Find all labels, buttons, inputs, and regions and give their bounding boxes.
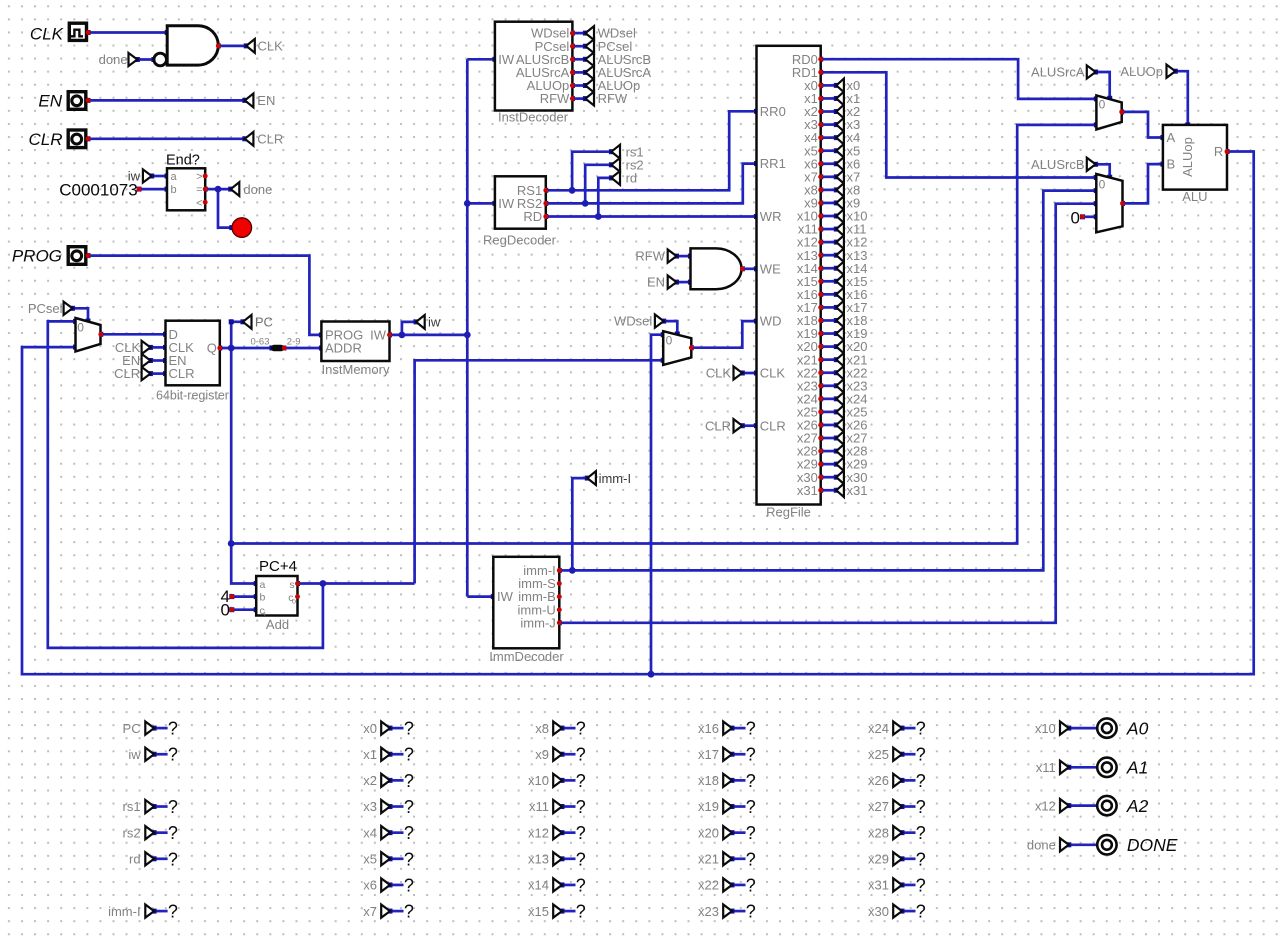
svg-text:IW: IW: [498, 52, 515, 67]
svg-text:A1: A1: [1126, 758, 1148, 778]
svg-text:CLK: CLK: [760, 366, 786, 381]
svg-text:x25: x25: [868, 747, 889, 762]
svg-text:rs2: rs2: [123, 825, 141, 840]
svg-text:WDsel: WDsel: [614, 314, 652, 329]
svg-text:?: ?: [404, 875, 414, 895]
svg-text:x16: x16: [698, 721, 719, 736]
svg-text:?: ?: [576, 771, 586, 791]
svg-text:RR1: RR1: [760, 156, 786, 171]
svg-text:WD: WD: [760, 314, 782, 329]
svg-text:Q: Q: [207, 340, 217, 355]
svg-text:PC: PC: [255, 314, 273, 329]
svg-text:a: a: [260, 579, 266, 591]
svg-text:x0: x0: [363, 721, 377, 736]
svg-text:?: ?: [916, 745, 926, 765]
svg-text:x1: x1: [363, 747, 377, 762]
svg-text:done: done: [99, 52, 128, 67]
svg-text:?: ?: [746, 745, 756, 765]
svg-text:x2: x2: [363, 773, 377, 788]
svg-text:?: ?: [168, 719, 178, 739]
svg-text:x23: x23: [698, 904, 719, 919]
svg-text:x31: x31: [868, 878, 889, 893]
svg-text:x11: x11: [1036, 760, 1056, 775]
svg-text:?: ?: [746, 823, 756, 843]
svg-text:?: ?: [916, 719, 926, 739]
svg-text:RFW: RFW: [540, 91, 570, 106]
svg-text:A: A: [1167, 130, 1176, 145]
svg-text:x29: x29: [868, 852, 889, 867]
svg-text:rs1: rs1: [123, 799, 141, 814]
svg-text:x8: x8: [535, 721, 549, 736]
svg-text:x12: x12: [528, 825, 549, 840]
svg-text:?: ?: [916, 771, 926, 791]
svg-text:?: ?: [168, 823, 178, 843]
svg-text:CLR: CLR: [257, 132, 283, 147]
svg-text:imm-I: imm-I: [599, 471, 632, 486]
svg-text:0: 0: [221, 601, 230, 620]
svg-text:ALUSrcB: ALUSrcB: [1031, 157, 1084, 172]
svg-text:?: ?: [404, 745, 414, 765]
svg-text:?: ?: [746, 771, 756, 791]
svg-text:?: ?: [576, 849, 586, 869]
svg-text:b: b: [171, 184, 177, 196]
svg-text:?: ?: [746, 875, 756, 895]
svg-text:RD: RD: [523, 209, 542, 224]
svg-text:?: ?: [168, 745, 178, 765]
svg-text:x7: x7: [363, 904, 377, 919]
svg-text:0: 0: [666, 333, 673, 347]
svg-text:C0001073: C0001073: [59, 181, 137, 200]
svg-text:x22: x22: [698, 878, 719, 893]
svg-text:x9: x9: [535, 747, 549, 762]
svg-text:?: ?: [168, 849, 178, 869]
svg-text:RegDecoder: RegDecoder: [483, 232, 557, 247]
svg-text:End?: End?: [166, 153, 200, 169]
svg-text:x31: x31: [847, 483, 868, 498]
svg-text:rd: rd: [129, 852, 141, 867]
svg-text:0: 0: [1071, 208, 1080, 227]
svg-text:x10: x10: [1035, 721, 1056, 736]
svg-text:x21: x21: [698, 852, 719, 867]
svg-text:B: B: [1167, 157, 1176, 172]
svg-text:imm-I: imm-I: [108, 904, 141, 919]
svg-text:o: o: [292, 596, 296, 605]
svg-text:RFW: RFW: [635, 249, 665, 264]
svg-text:CLR: CLR: [760, 418, 786, 433]
svg-text:?: ?: [404, 771, 414, 791]
svg-text:2-9: 2-9: [287, 336, 301, 347]
svg-text:?: ?: [576, 719, 586, 739]
svg-text:?: ?: [404, 823, 414, 843]
svg-text:CLR: CLR: [705, 418, 731, 433]
svg-text:x20: x20: [698, 825, 719, 840]
svg-text:DONE: DONE: [1127, 835, 1178, 855]
svg-text:WE: WE: [760, 261, 781, 276]
svg-text:PC: PC: [123, 721, 141, 736]
svg-text:ALUop: ALUop: [1180, 137, 1195, 177]
svg-text:?: ?: [916, 849, 926, 869]
svg-text:x14: x14: [528, 878, 549, 893]
svg-text:?: ?: [576, 875, 586, 895]
svg-text:?: ?: [746, 797, 756, 817]
svg-text:CLR: CLR: [28, 130, 62, 149]
svg-text:x11: x11: [529, 799, 549, 814]
svg-text:x28: x28: [868, 825, 889, 840]
svg-text:a: a: [171, 171, 178, 183]
svg-text:imm-J: imm-J: [520, 615, 555, 630]
svg-text:<: <: [196, 197, 202, 209]
svg-text:?: ?: [168, 902, 178, 922]
svg-text:R: R: [1214, 144, 1223, 159]
svg-text:iw: iw: [128, 747, 141, 762]
svg-text:?: ?: [746, 902, 756, 922]
svg-text:0: 0: [1099, 97, 1106, 111]
svg-text:?: ?: [916, 797, 926, 817]
svg-text:?: ?: [404, 719, 414, 739]
svg-text:?: ?: [576, 823, 586, 843]
svg-text:0-63: 0-63: [250, 336, 269, 347]
svg-text:CLR: CLR: [114, 366, 140, 381]
svg-text:?: ?: [916, 823, 926, 843]
svg-text:?: ?: [404, 849, 414, 869]
svg-text:EN: EN: [647, 275, 665, 290]
svg-text:EN: EN: [257, 93, 275, 108]
svg-text:IW: IW: [370, 327, 387, 342]
svg-text:?: ?: [576, 797, 586, 817]
svg-text:x19: x19: [698, 799, 719, 814]
svg-text:64bit-register: 64bit-register: [156, 389, 229, 403]
svg-text:x3: x3: [363, 799, 377, 814]
svg-text:x27: x27: [868, 799, 889, 814]
svg-text:InstDecoder: InstDecoder: [498, 109, 569, 124]
svg-text:?: ?: [746, 849, 756, 869]
svg-text:CLR: CLR: [169, 366, 195, 381]
svg-text:done: done: [243, 182, 272, 197]
svg-text:x6: x6: [363, 878, 377, 893]
svg-text:x4: x4: [363, 825, 377, 840]
svg-text:ALU: ALU: [1182, 189, 1207, 204]
svg-text:CLK: CLK: [30, 25, 64, 44]
svg-text:?: ?: [916, 875, 926, 895]
svg-text:x5: x5: [363, 852, 377, 867]
svg-text:s: s: [289, 579, 294, 591]
svg-text:x12: x12: [1035, 798, 1056, 813]
svg-text:A0: A0: [1126, 718, 1149, 738]
svg-text:0: 0: [1099, 178, 1106, 192]
svg-text:x30: x30: [868, 904, 889, 919]
svg-text:x17: x17: [698, 747, 719, 762]
svg-text:A2: A2: [1126, 796, 1149, 816]
svg-text:x13: x13: [528, 852, 549, 867]
svg-text:RegFile: RegFile: [766, 504, 811, 519]
svg-text:?: ?: [404, 902, 414, 922]
svg-text:CLK: CLK: [706, 366, 732, 381]
svg-text:?: ?: [168, 797, 178, 817]
svg-text:x18: x18: [698, 773, 719, 788]
svg-text:PC+4: PC+4: [259, 558, 297, 575]
svg-text:done: done: [1027, 838, 1056, 853]
svg-text:RR0: RR0: [760, 104, 786, 119]
svg-text:?: ?: [576, 745, 586, 765]
svg-text:?: ?: [576, 902, 586, 922]
svg-text:x31: x31: [797, 483, 818, 498]
svg-text:Add: Add: [266, 617, 289, 632]
svg-text:RFW: RFW: [598, 91, 628, 106]
svg-text:IW: IW: [497, 589, 514, 604]
svg-text:b: b: [260, 592, 266, 604]
svg-text:ADDR: ADDR: [325, 341, 362, 356]
svg-text:ALUOp: ALUOp: [1120, 64, 1163, 79]
svg-text:?: ?: [746, 719, 756, 739]
svg-text:PCsel: PCsel: [28, 301, 63, 316]
svg-text:IW: IW: [498, 196, 515, 211]
svg-text:>: >: [196, 171, 202, 183]
svg-text:InstMemory: InstMemory: [322, 362, 390, 377]
svg-text:EN: EN: [38, 92, 62, 111]
svg-text:x15: x15: [528, 904, 549, 919]
svg-text:x26: x26: [868, 773, 889, 788]
svg-text:iw: iw: [428, 314, 441, 329]
svg-text:x24: x24: [868, 721, 889, 736]
svg-text:CLK: CLK: [258, 39, 284, 54]
svg-text:?: ?: [916, 902, 926, 922]
svg-text:=: =: [196, 184, 202, 196]
svg-text:ALUSrcA: ALUSrcA: [1031, 65, 1085, 80]
svg-text:rd: rd: [626, 171, 638, 186]
svg-text:PROG: PROG: [12, 247, 62, 266]
svg-text:WR: WR: [760, 209, 782, 224]
svg-text:?: ?: [404, 797, 414, 817]
svg-text:ImmDecoder: ImmDecoder: [489, 649, 564, 664]
svg-text:0: 0: [77, 321, 84, 335]
svg-text:x10: x10: [528, 773, 549, 788]
